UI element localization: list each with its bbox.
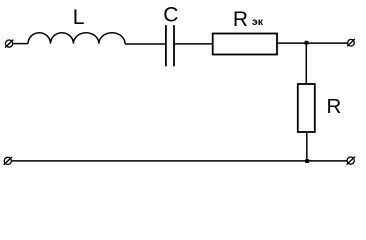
wire — [13, 43, 28, 45]
wire bottom — [11, 160, 347, 162]
svg-text:L: L — [73, 6, 85, 29]
svg-text:R: R — [233, 8, 248, 31]
terminal output top — [347, 39, 355, 47]
svg-text:эк: эк — [252, 16, 264, 28]
wire — [277, 42, 348, 44]
node junction bottom — [305, 159, 309, 163]
wire — [306, 132, 308, 161]
resistor R — [298, 84, 315, 132]
wire — [125, 43, 165, 45]
wire — [305, 43, 307, 84]
wire — [175, 43, 213, 45]
resistor R_ek — [213, 34, 277, 55]
terminal input bottom — [4, 157, 12, 165]
svg-text:C: C — [163, 4, 178, 27]
node junction top — [305, 41, 309, 45]
inductor L — [28, 33, 125, 44]
capacitor C — [166, 25, 174, 66]
terminal input top — [5, 40, 13, 48]
terminal output bottom — [347, 157, 355, 165]
label R_ek — [233, 8, 264, 31]
svg-text:R: R — [327, 95, 342, 118]
